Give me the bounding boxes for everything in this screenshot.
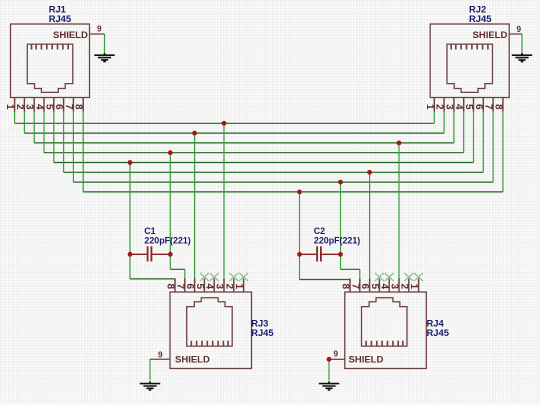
svg-text:SHIELD: SHIELD (349, 354, 384, 365)
svg-text:6: 6 (184, 284, 195, 290)
junction dot row7 tap (338, 180, 343, 185)
RJ2 pin numbers 1-8 (424, 104, 504, 110)
capacitor C1 (130, 246, 170, 261)
RJ4 SHIELD label (349, 354, 384, 365)
svg-text:1: 1 (408, 284, 419, 290)
svg-text:8: 8 (165, 284, 176, 290)
RJ4 shield pin 9 (329, 358, 345, 360)
connector RJ4 body (345, 292, 427, 369)
svg-text:3: 3 (389, 284, 400, 290)
connector RJ3 body (170, 292, 252, 369)
svg-text:220pF(221): 220pF(221) (144, 236, 190, 246)
junction dot row6 tap (367, 170, 372, 175)
capacitor C2 (300, 246, 341, 261)
junction dot C2 right (338, 252, 343, 257)
svg-text:3: 3 (443, 104, 454, 110)
wire tap row4 to C1 right and RJ3 pin7 (170, 153, 185, 282)
svg-text:6: 6 (359, 284, 370, 290)
ground GND4 (319, 381, 339, 390)
connector RJ4 pins 8-1 (350, 279, 419, 293)
svg-text:7: 7 (349, 284, 360, 290)
svg-text:1: 1 (4, 104, 15, 110)
ground GND1 (94, 53, 114, 62)
capacitor C1 labels (144, 226, 191, 246)
svg-text:8: 8 (492, 104, 503, 110)
junction dot C2 left (297, 252, 302, 257)
ground GND3 (140, 381, 160, 390)
wire bus row 4 (RJ1 pin4 to RJ2 pin4) (44, 112, 464, 153)
wire tap row2 to RJ3 pin6 (194, 133, 196, 282)
capacitor C2 labels (314, 226, 361, 246)
RJ3 shield pin 9 (150, 358, 170, 360)
junction dot row3 tap (397, 141, 402, 146)
svg-text:5: 5 (463, 104, 474, 110)
RJ1 name labels (49, 3, 71, 24)
svg-text:SHIELD: SHIELD (175, 354, 210, 365)
RJ1 SHIELD label (53, 30, 88, 41)
svg-text:7: 7 (174, 284, 185, 290)
svg-text:4: 4 (453, 104, 464, 110)
junction dot row4 tap (168, 150, 173, 155)
svg-text:2: 2 (434, 104, 445, 110)
wire bus row 8 (RJ1 pin8 to RJ2 pin8) (83, 112, 503, 192)
svg-text:8: 8 (73, 104, 84, 110)
svg-text:5: 5 (194, 284, 205, 290)
RJ3 unconnected pin x marks (200, 273, 248, 281)
RJ4 name labels (427, 318, 449, 339)
svg-text:RJ45: RJ45 (49, 13, 71, 24)
RJ2 name labels (469, 3, 491, 24)
RJ3 pin 9 label (158, 351, 163, 360)
svg-text:6: 6 (473, 104, 484, 110)
wire tap row8 to C2 left and RJ4 pin8 (300, 192, 351, 282)
wire RJ3 shield to ground (149, 359, 151, 380)
wire tap row1 to RJ3 pin3 (223, 123, 225, 282)
junction dot row2 tap (192, 131, 197, 136)
wire bus row 5 (RJ1 pin5 to RJ2 pin5) (54, 112, 474, 163)
svg-text:2: 2 (398, 284, 409, 290)
svg-text:220pF(221): 220pF(221) (314, 236, 360, 246)
junction dot row1 tap (222, 121, 227, 126)
svg-text:5: 5 (43, 104, 54, 110)
RJ3 pin numbers 8-1 (165, 284, 245, 290)
wire bus row 6 (RJ1 pin6 to RJ2 pin6) (64, 112, 484, 173)
svg-text:9: 9 (97, 25, 102, 34)
wire RJ2 shield to ground (521, 34, 523, 54)
junction dot C1 left (128, 252, 133, 257)
RJ1 shield pin 9 (90, 33, 105, 35)
connector RJ1 pins 1-8 (15, 98, 84, 112)
RJ2 shield pin 9 (509, 33, 522, 35)
svg-text:RJ45: RJ45 (427, 327, 449, 338)
svg-text:C1: C1 (144, 226, 155, 236)
junction dot row5 tap (128, 160, 133, 165)
svg-text:9: 9 (334, 350, 339, 359)
svg-text:2: 2 (14, 104, 25, 110)
svg-text:C2: C2 (314, 226, 325, 236)
junction dot RJ4 shield (327, 357, 332, 362)
svg-text:9: 9 (158, 351, 163, 360)
svg-text:7: 7 (63, 104, 74, 110)
svg-text:3: 3 (24, 104, 35, 110)
svg-text:8: 8 (340, 284, 351, 290)
svg-text:6: 6 (53, 104, 64, 110)
wire tap row7 to C2 right and RJ4 pin7 (341, 182, 360, 282)
wire RJ1 shield to ground (104, 34, 106, 54)
connector RJ1 body (11, 24, 90, 98)
RJ4 pin numbers 8-1 (340, 284, 420, 290)
RJ2 pin 9 label (517, 25, 522, 34)
junction dot C1 right (168, 252, 173, 257)
wire tap row3 to RJ4 pin3 (398, 143, 400, 282)
wire bus row 2 (RJ1 pin2 to RJ2 pin2) (24, 112, 444, 134)
wire bus row 7 (RJ1 pin7 to RJ2 pin7) (73, 112, 493, 183)
svg-text:SHIELD: SHIELD (473, 30, 508, 41)
svg-text:9: 9 (517, 25, 522, 34)
wire bus row 3 (RJ1 pin3 to RJ2 pin3) (34, 112, 454, 143)
svg-text:5: 5 (369, 284, 380, 290)
svg-text:3: 3 (214, 284, 225, 290)
connector RJ3 pins 8-1 (175, 279, 244, 293)
svg-text:4: 4 (204, 284, 215, 290)
connector RJ2 pins 1-8 (434, 98, 503, 112)
wire tap row6 to RJ4 pin6 (369, 172, 371, 282)
RJ4 unconnected pin x marks (375, 273, 423, 281)
wire tap row5 to C1 left and RJ3 pin8 (130, 163, 175, 283)
RJ1 pin numbers 1-8 (4, 104, 84, 110)
RJ1 pin 9 label (97, 25, 102, 34)
wire bus row 1 (RJ1 pin1 to RJ2 pin1) (15, 112, 435, 124)
svg-text:1: 1 (233, 284, 244, 290)
wire RJ4 shield to ground (328, 359, 330, 380)
svg-text:RJ45: RJ45 (469, 13, 491, 24)
RJ3 SHIELD label (175, 354, 210, 365)
svg-text:2: 2 (223, 284, 234, 290)
svg-text:RJ45: RJ45 (251, 327, 273, 338)
connector RJ2 body (430, 24, 509, 98)
ground GND2 (512, 53, 532, 62)
svg-text:4: 4 (379, 284, 390, 290)
svg-text:1: 1 (424, 104, 435, 110)
RJ3 name labels (251, 318, 273, 339)
svg-text:4: 4 (34, 104, 45, 110)
svg-text:SHIELD: SHIELD (53, 30, 88, 41)
svg-text:7: 7 (483, 104, 494, 110)
junction dot row8 tap (297, 190, 302, 195)
RJ4 pin 9 label (334, 350, 339, 359)
RJ2 SHIELD label (473, 30, 508, 41)
